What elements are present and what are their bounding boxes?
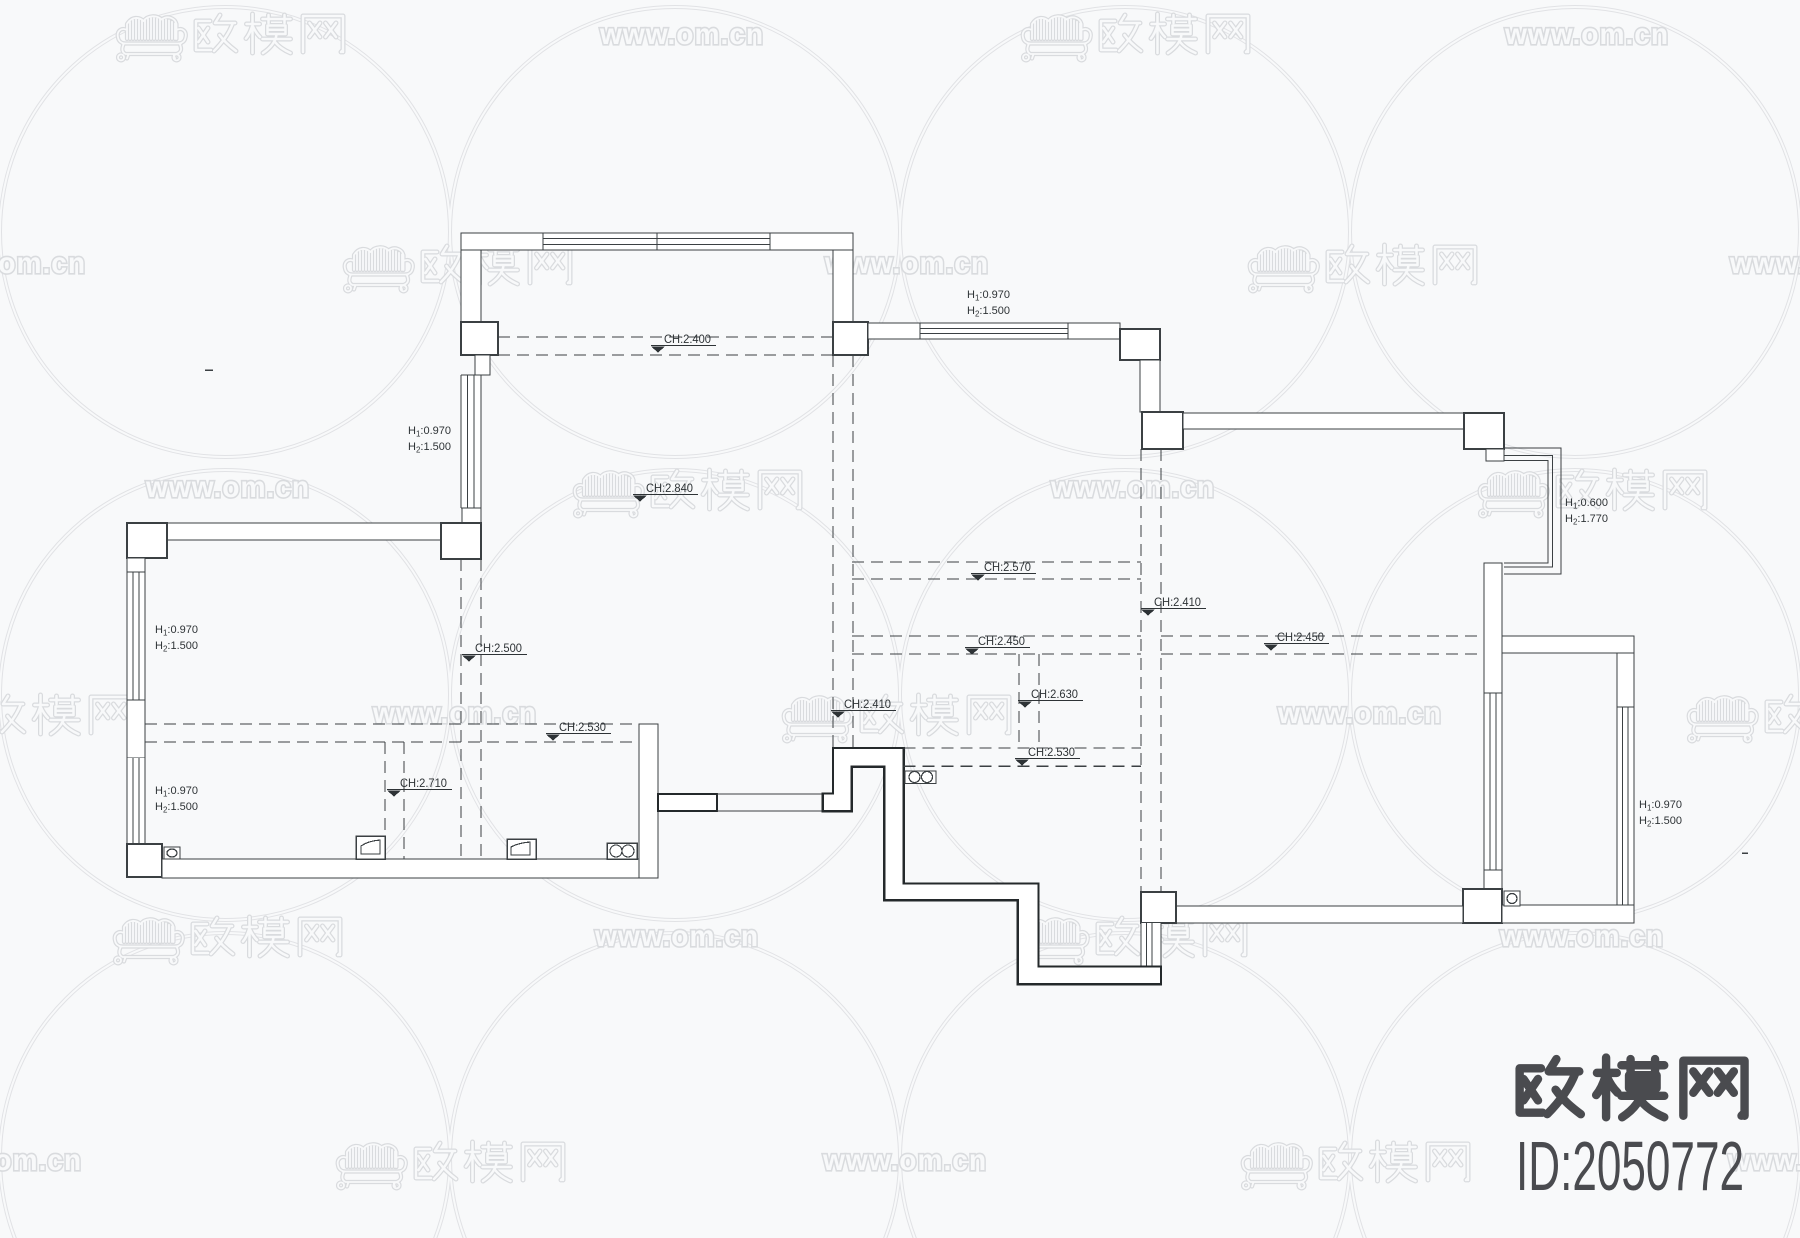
left wall pier between windows [127, 700, 145, 758]
svg-text:H1:0.600: H1:0.600 [1565, 497, 1608, 511]
balcony right wall upper [1617, 653, 1634, 707]
dashed pair CH2.710 vertical [385, 742, 404, 859]
column B1 top-right [441, 523, 481, 559]
svg-text:H1:0.970: H1:0.970 [1639, 799, 1682, 813]
window W5 balcony right wall [1617, 707, 1634, 905]
label CH:2.630 [1018, 687, 1083, 708]
svg-text:H2:1.770: H2:1.770 [1565, 513, 1608, 527]
label CH:2.410 right [1141, 595, 1206, 616]
column B2 top-left [127, 523, 167, 558]
svg-text:www.om.cn: www.om.cn [1504, 18, 1669, 51]
dashed pair CH2.630 vertical [1019, 654, 1039, 748]
svg-text:www.om.cn: www.om.cn [0, 1144, 82, 1177]
label H room B lower [155, 785, 198, 815]
window W7 room B left wall lower [127, 758, 145, 844]
window W1 in room A top wall [543, 233, 770, 250]
svg-text:H1:0.970: H1:0.970 [155, 624, 198, 638]
dashed pair CH2.500 vertical [461, 559, 481, 859]
window W6 room B left wall upper [127, 572, 145, 700]
symbol: small box with circle on balcony floor [1504, 891, 1520, 906]
svg-text:ID:2050772: ID:2050772 [1516, 1127, 1744, 1205]
column C2 [1464, 413, 1504, 449]
window W3 in mid-top wall [920, 323, 1068, 339]
dashed pair CH2.530 middle [904, 748, 1141, 766]
svg-text:CH:2.840: CH:2.840 [646, 481, 693, 495]
svg-text:www.om.cn: www.om.cn [1729, 247, 1800, 280]
svg-text:www.om.cn: www.om.cn [145, 471, 310, 504]
label H left of room A window [408, 425, 451, 455]
label H balcony right [1639, 799, 1682, 829]
svg-text:CH:2.410: CH:2.410 [844, 697, 891, 711]
room B top wall [167, 523, 441, 540]
label H mid-top [967, 289, 1010, 319]
symbol: double circle box at zigzag wall [905, 771, 936, 784]
svg-text:CH:2.400: CH:2.400 [664, 332, 711, 346]
svg-text:H2:1.500: H2:1.500 [1639, 815, 1682, 829]
svg-text:H1:0.970: H1:0.970 [967, 289, 1010, 303]
room A left wall upper [461, 250, 481, 322]
column B3 bottom-left [127, 844, 162, 877]
column C4 bottom-left of right room [1141, 892, 1176, 923]
dashed pair CH2.410 right vertical [1141, 449, 1161, 892]
label CH:2.570 [971, 560, 1036, 581]
stub below column C2 [1486, 449, 1504, 461]
svg-text:CH:2.630: CH:2.630 [1031, 687, 1078, 701]
svg-text:www.om.cn: www.om.cn [599, 18, 764, 51]
window W2 room A left wall [461, 375, 481, 508]
room B bottom wall [162, 859, 639, 878]
svg-text:www.om.cn: www.om.cn [594, 920, 759, 953]
svg-text:H2:1.500: H2:1.500 [967, 305, 1010, 319]
label CH:2.400 [651, 332, 716, 353]
label CH:2.840 [633, 481, 698, 502]
stub below window W4 [1484, 870, 1502, 891]
symbol: vent box 1 [356, 836, 385, 859]
label CH:2.500 [462, 641, 527, 662]
room A top wall [461, 233, 853, 250]
svg-text:H1:0.970: H1:0.970 [155, 785, 198, 799]
right room bottom wall [1176, 906, 1463, 923]
svg-text:CH:2.530: CH:2.530 [559, 720, 606, 734]
dashed pair CH2.570 [852, 562, 1141, 579]
corridor thin lines [717, 794, 823, 811]
column A1 [461, 322, 498, 355]
label CH:2.410 left [831, 697, 896, 718]
right room top wall [1183, 413, 1464, 429]
svg-text:CH:2.500: CH:2.500 [475, 641, 522, 655]
room B right wall [639, 724, 658, 878]
corner block mid-top [1120, 329, 1160, 360]
svg-text:www.om.cn: www.om.cn [822, 1144, 987, 1177]
tiny stray dash marks [205, 369, 213, 371]
svg-text:CH:2.710: CH:2.710 [400, 776, 447, 790]
balcony bottom wall [1502, 905, 1634, 923]
dashed pair CH2.530 left room [145, 724, 639, 742]
wall stub above corner column B1 [462, 508, 481, 523]
balcony top wall [1502, 636, 1634, 653]
label CH:2.450 right [1264, 630, 1329, 651]
svg-text:www.om.cn: www.om.cn [0, 247, 86, 280]
column A2 [833, 322, 868, 355]
door panel at room B right wall opening [658, 794, 717, 811]
svg-text:CH:2.450: CH:2.450 [978, 634, 1025, 648]
symbol: double socket [607, 843, 637, 859]
right room right wall below bay [1484, 563, 1502, 693]
big dark logo OMW [1520, 1058, 1745, 1118]
svg-text:www.om.cn: www.om.cn [1050, 471, 1215, 504]
dashed pair CH2.410 left vertical [833, 355, 853, 748]
mid-top wall [868, 323, 1120, 339]
label CH:2.530 left [546, 720, 611, 741]
label H bay window [1565, 497, 1608, 527]
svg-text:H1:0.970: H1:0.970 [408, 425, 451, 439]
bold zigzag wall bottom middle [823, 748, 1161, 984]
svg-text:www.om.cn: www.om.cn [1277, 697, 1442, 730]
svg-text:CH:2.450: CH:2.450 [1277, 630, 1324, 644]
dashed pair CH2.450 right [1161, 636, 1484, 654]
symbol: vent box 2 [507, 839, 536, 859]
svg-text:H2:1.500: H2:1.500 [408, 441, 451, 455]
label CH:2.450 left [965, 634, 1030, 655]
dashed pair CH2.400 [498, 337, 833, 355]
left wall stub [127, 558, 145, 572]
door jamb below column C4 [1141, 923, 1161, 966]
symbol: socket left [164, 847, 180, 859]
label CH:2.530 middle [1015, 745, 1080, 766]
column C3 bottom-right of right room [1463, 889, 1502, 923]
svg-text:H2:1.500: H2:1.500 [155, 801, 198, 815]
svg-text:CH:2.570: CH:2.570 [984, 560, 1031, 574]
window W4 right room right wall [1484, 693, 1502, 870]
bay window (right side) [1504, 448, 1561, 574]
column C1 [1142, 412, 1183, 449]
dashed pair CH2.450 left [852, 636, 1141, 654]
label CH:2.710 [387, 776, 452, 797]
wall below corner block [1140, 360, 1160, 412]
label H room B upper [155, 624, 198, 654]
svg-text:www.om.cn: www.om.cn [1499, 920, 1664, 953]
svg-text:CH:2.530: CH:2.530 [1028, 745, 1075, 759]
svg-text:H2:1.500: H2:1.500 [155, 640, 198, 654]
room A right wall [833, 250, 853, 322]
svg-text:CH:2.410: CH:2.410 [1154, 595, 1201, 609]
wall stub below column A1 [475, 355, 490, 375]
svg-text:www.om.cn: www.om.cn [372, 697, 537, 730]
